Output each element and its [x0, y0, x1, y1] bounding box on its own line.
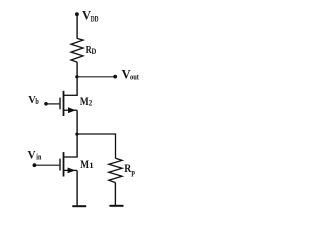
wire: M1 source to ground — [76, 170, 78, 205]
wire: Vb to M2 gate — [46, 103, 59, 105]
svg-text:out: out — [130, 72, 139, 82]
label M1 — [80, 159, 94, 171]
resistor RD — [71, 38, 83, 62]
transistor M2 source arrow — [68, 107, 76, 113]
svg-text:P: P — [131, 170, 135, 179]
svg-text:2: 2 — [89, 98, 93, 108]
svg-text:M: M — [80, 159, 89, 171]
transistor M1 channel bar — [63, 152, 65, 176]
svg-text:V: V — [82, 9, 91, 23]
svg-text:b: b — [35, 96, 39, 106]
transistor M2 source line — [63, 109, 77, 111]
wire: middle junction to RP top corner — [77, 134, 115, 159]
junction dot at Vout node — [75, 75, 78, 78]
transistor M1 drain line — [63, 156, 78, 158]
resistor RP — [109, 158, 122, 182]
label Vout — [122, 68, 139, 82]
transistor M2 gate bar — [59, 98, 61, 110]
wire: VDD to RD top — [76, 14, 78, 39]
ground symbol under RP — [109, 205, 123, 207]
label Vin — [28, 149, 42, 161]
wire: middle junction to M1 drain corner — [76, 134, 78, 157]
transistor M2 drain line — [63, 94, 78, 96]
svg-text:D: D — [92, 47, 97, 56]
svg-text:in: in — [36, 153, 41, 162]
label M2 — [80, 96, 93, 108]
node Vout terminal dot — [113, 75, 117, 79]
node Vb terminal dot — [44, 102, 48, 106]
wire: Vin to M1 gate — [34, 164, 59, 166]
transistor M1 gate bar — [59, 159, 61, 171]
svg-text:DD: DD — [91, 14, 99, 24]
wire: Vout node to M2 drain corner — [76, 77, 78, 96]
wire: RD bottom to Vout node — [76, 62, 78, 77]
label VDD — [82, 9, 99, 24]
transistor M1 source line — [63, 169, 77, 171]
svg-text:V: V — [28, 149, 36, 161]
transistor M1 source arrow — [68, 168, 76, 174]
value label RP — [124, 163, 135, 179]
transistor M2 channel bar — [63, 91, 65, 116]
junction dot middle node — [75, 133, 78, 136]
svg-text:1: 1 — [89, 160, 93, 170]
wire: RP bottom to ground — [114, 183, 116, 206]
wire: Vout branch horizontal — [77, 76, 114, 78]
value label RD — [86, 45, 97, 56]
node VDD terminal dot — [75, 12, 79, 16]
wire: M2 source to middle junction — [76, 110, 78, 134]
ground symbol under M1 — [72, 205, 86, 207]
svg-text:M: M — [80, 96, 89, 108]
label Vb — [28, 95, 39, 106]
node Vin terminal dot — [33, 163, 37, 167]
